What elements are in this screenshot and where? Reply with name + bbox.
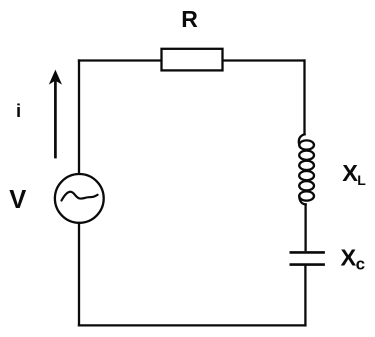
svg-text:i: i: [16, 100, 21, 121]
svg-text:L: L: [357, 172, 366, 188]
svg-text:R: R: [181, 6, 198, 32]
svg-text:X: X: [341, 245, 357, 271]
svg-text:X: X: [342, 160, 358, 186]
svg-text:c: c: [356, 255, 365, 274]
svg-text:V: V: [9, 186, 26, 214]
